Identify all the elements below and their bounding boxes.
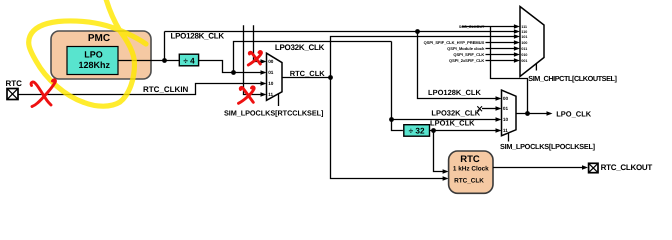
svg-text:1 kHz Clock: 1 kHz Clock — [453, 165, 489, 172]
svg-text:00: 00 — [268, 59, 274, 64]
wire from top (off-figure) to left mux input 00 — [254, 25, 263, 61]
svg-text:QSPI_Module clock: QSPI_Module clock — [447, 46, 485, 51]
wire top mux row1 input stub — [462, 26, 516, 28]
svg-text:LPO128K_CLK: LPO128K_CLK — [171, 32, 225, 41]
wire /32 output to lower mux input 11 — [429, 130, 498, 132]
junction dot at LPO output branch — [162, 58, 167, 63]
wire branch up to LPO128K rail — [164, 32, 166, 61]
svg-text:001: 001 — [521, 59, 527, 63]
svg-text:LPO32K_CLK: LPO32K_CLK — [275, 43, 325, 52]
svg-text:LPO_CLK: LPO_CLK — [556, 109, 592, 118]
svg-text:LPO32K_CLK: LPO32K_CLK — [431, 109, 480, 118]
svg-text:RTC_CLK: RTC_CLK — [290, 69, 326, 78]
wire top mux row6 input stub — [486, 54, 517, 56]
junction dot LPO_CLK feedback — [525, 111, 530, 116]
svg-text:PMC: PMC — [88, 33, 110, 44]
PMC block — [51, 31, 151, 79]
RTC block — [449, 151, 493, 193]
svg-text:10: 10 — [503, 117, 509, 122]
wire LPO1K down to RTC block — [434, 131, 445, 172]
wire LPO output to divide-by-4 — [118, 60, 181, 62]
svg-text:÷ 4: ÷ 4 — [183, 57, 195, 66]
wire RTC_CLK up to top mux row3 — [331, 37, 517, 78]
junction dot LPO1K branch — [431, 128, 436, 133]
wire top mux row4 input stub — [486, 42, 517, 44]
svg-text:RTC_CLKOUT: RTC_CLKOUT — [601, 163, 653, 172]
wire LPO128K down to lower mux input 00 — [418, 32, 499, 99]
wire RTC_CLK output of left mux — [282, 77, 331, 79]
mux SIM_LPOCLKS[LPOCLKSEL] — [502, 90, 517, 141]
svg-text:RTC: RTC — [6, 79, 23, 88]
svg-text:01: 01 — [503, 106, 509, 111]
red X over left mux input 11 — [239, 87, 255, 103]
wire LPO_CLK feedback to top mux row1 — [491, 27, 528, 114]
wire no-clock stub to lower mux input 01 — [482, 108, 498, 110]
svg-text:÷ 32: ÷ 32 — [409, 127, 425, 136]
svg-text:01: 01 — [268, 70, 274, 75]
svg-text:QSPI_SFIF_CLK_HYP_PREMUX: QSPI_SFIF_CLK_HYP_PREMUX — [424, 40, 485, 45]
mux SIM_CHIPCTL[CLKOUTSEL] — [520, 7, 544, 77]
svg-text:110: 110 — [521, 30, 527, 34]
svg-text:SIM_CHIPCTL[CLKOUTSEL]: SIM_CHIPCTL[CLKOUTSEL] — [528, 74, 617, 83]
junction dot LPO32K branch — [231, 70, 236, 75]
junction dot LPO32K to mux input 10 — [389, 117, 394, 122]
svg-text:RTC_CLK: RTC_CLK — [454, 177, 484, 184]
svg-text:SIM_LPOCLKS[RTCCLKSEL]: SIM_LPOCLKS[RTCCLKSEL] — [224, 109, 324, 118]
wire LPO128K_CLK rail to top-right mux row2 — [165, 31, 517, 33]
divider /4 — [179, 54, 198, 66]
wire RTC_CLK down to RTC block — [331, 78, 445, 179]
svg-text:00: 00 — [503, 96, 509, 101]
svg-text:SIM_LPOCLKS[LPOCLKSEL]: SIM_LPOCLKS[LPOCLKSEL] — [500, 142, 596, 151]
svg-text:LPO1K_CLK: LPO1K_CLK — [430, 118, 475, 127]
svg-text:SCG_CLKOUT: SCG_CLKOUT — [459, 25, 485, 29]
svg-text:11: 11 — [503, 128, 508, 133]
junction dot on LPO128K rail — [415, 29, 420, 34]
wire top mux row5 input stub — [486, 48, 517, 50]
red X over left mux input 00 — [248, 52, 261, 65]
svg-text:LPO: LPO — [84, 50, 103, 60]
yellow highlighter circle around PMC — [29, 0, 146, 106]
wire LPO_CLK output — [516, 113, 549, 115]
wire /4 output to left mux input 01 — [199, 61, 263, 73]
LPO 128Khz oscillator — [67, 47, 118, 75]
svg-text:11: 11 — [268, 92, 273, 97]
wire from top (off-figure) to left mux input 11 — [244, 25, 263, 94]
mux SIM_LPOCLKS[RTCCLKSEL] — [267, 53, 283, 106]
svg-text:10: 10 — [268, 81, 274, 86]
svg-text:011: 011 — [521, 47, 527, 51]
wire RTC_CLKIN: pad to left mux input 10 — [18, 84, 262, 95]
no-clock cross mark on lower mux input 01 — [477, 106, 482, 111]
svg-text:QSPI_SFIF_CLK: QSPI_SFIF_CLK — [453, 52, 484, 57]
svg-text:RTC: RTC — [460, 154, 480, 165]
divider /32 — [404, 125, 430, 137]
svg-text:111: 111 — [521, 25, 527, 29]
svg-text:128Khz: 128Khz — [79, 60, 111, 70]
wire LPO32K_CLK rail: up and right to lower-right area — [234, 42, 392, 73]
svg-text:QSPI_2xSFIF_CLK: QSPI_2xSFIF_CLK — [449, 58, 484, 63]
svg-text:101: 101 — [521, 35, 527, 39]
red X over RTC_CLKIN wire — [31, 80, 55, 107]
RTC_CLKOUT pad — [589, 163, 598, 172]
svg-text:RTC_CLKIN: RTC_CLKIN — [143, 85, 189, 94]
svg-text:LPO128K_CLK: LPO128K_CLK — [428, 88, 482, 97]
node RTC_CLK branch dot — [328, 75, 333, 80]
svg-text:100: 100 — [521, 41, 527, 45]
wire top mux row7 input stub — [486, 60, 517, 62]
wire LPO32K down to lower mux input 10 and divider — [392, 42, 403, 131]
svg-text:010: 010 — [521, 53, 527, 57]
wire LPO32K to lower mux input 10 — [392, 119, 499, 121]
wire RTC_CLKOUT — [493, 167, 584, 169]
RTC input pad — [6, 79, 23, 100]
